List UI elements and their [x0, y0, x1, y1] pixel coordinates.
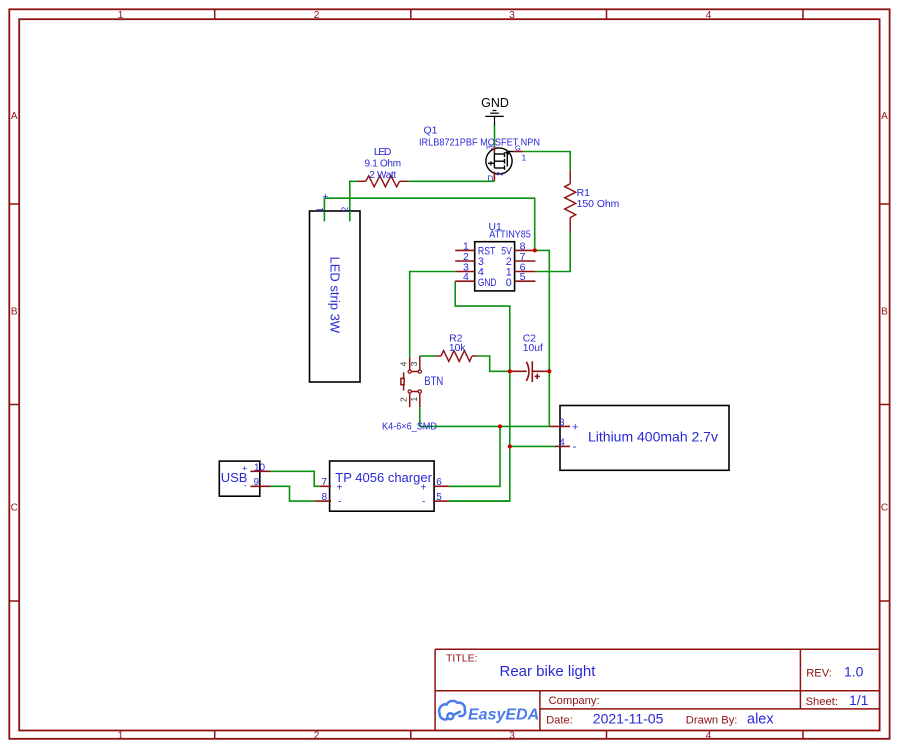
wire C2 right to battery plus rail — [548, 371, 550, 426]
wire BTN pin1 to plus rail — [419, 407, 421, 426]
wire U1 pin3 to BTN pin4 — [410, 272, 456, 358]
svg-text:2: 2 — [496, 171, 505, 176]
svg-text:150 Ohm: 150 Ohm — [577, 199, 620, 210]
svg-text:10k: 10k — [449, 343, 466, 354]
node junction C2 left — [508, 369, 512, 373]
USB pin 10 stub — [250, 470, 270, 472]
TP4056 charger module — [315, 461, 449, 511]
LED strip pin 1 — [323, 211, 325, 221]
LED strip 3W module — [310, 191, 361, 382]
wire TP4056 pin6 to plus rail — [449, 485, 500, 487]
U1 pin numbers — [463, 240, 526, 283]
svg-text:3: 3 — [509, 731, 515, 742]
svg-text:D: D — [488, 175, 494, 184]
wire BTN pin3 to R2 — [420, 355, 436, 357]
ground symbol — [485, 111, 504, 127]
pushbutton BTN — [399, 356, 422, 407]
svg-text:3: 3 — [559, 418, 565, 429]
wire Q1 source to LED resistor — [408, 180, 494, 182]
svg-text:LED: LED — [374, 147, 392, 158]
svg-text:6: 6 — [436, 477, 442, 488]
title block borders — [435, 649, 879, 730]
node junction battery plus — [498, 424, 502, 428]
wire U1 GND pin to C2 left — [455, 281, 510, 371]
svg-text:5: 5 — [436, 492, 442, 503]
svg-text:1/1: 1/1 — [849, 692, 869, 708]
wire battery minus down to TP4056 pin5 — [449, 446, 510, 501]
ruler ticks top — [215, 9, 803, 19]
svg-text:Company:: Company: — [549, 695, 600, 707]
transistor Q1 — [485, 144, 526, 184]
svg-text:2: 2 — [399, 397, 409, 402]
svg-text:alex: alex — [747, 712, 774, 728]
svg-text:4: 4 — [706, 731, 712, 742]
svg-text:K4-6×6_SMD: K4-6×6_SMD — [382, 422, 437, 433]
svg-text:4: 4 — [463, 271, 469, 283]
svg-text:R1: R1 — [577, 188, 591, 199]
battery Lithium 400mah — [550, 406, 730, 471]
svg-text:Q1: Q1 — [424, 126, 438, 137]
ruler numbers top — [118, 10, 712, 21]
svg-text:IRLB8721PBF MOSFET NPN: IRLB8721PBF MOSFET NPN — [419, 137, 540, 148]
node junction battery minus — [508, 444, 512, 448]
TP4056 pin 7 stub — [320, 485, 331, 487]
TP4056 pin 8 stub — [315, 500, 331, 502]
TP4056 pin 6 stub — [434, 485, 449, 487]
svg-text:3: 3 — [409, 361, 419, 366]
wire battery plus horizontal — [420, 425, 550, 427]
Q1 drain pin stub — [493, 146, 495, 153]
resistor R2 — [436, 351, 478, 362]
svg-text:A: A — [11, 111, 18, 122]
svg-text:4: 4 — [559, 438, 565, 449]
svg-text:+: + — [242, 464, 247, 474]
svg-text:Sheet:: Sheet: — [806, 696, 838, 708]
wire R2 right to C2 left — [478, 356, 510, 371]
svg-text:1: 1 — [409, 397, 419, 402]
resistor LED (9.1 Ohm) — [357, 176, 409, 187]
svg-text:1: 1 — [118, 731, 124, 742]
svg-text:B: B — [881, 307, 888, 318]
wire R1 bottom to U1 pin6 — [535, 232, 570, 272]
svg-text:3: 3 — [509, 10, 515, 21]
wire LED strip pin1 5V rail to U1 pin8 — [324, 198, 534, 250]
svg-text:+: + — [421, 483, 427, 494]
IC U1 ATTINY85 — [455, 240, 535, 291]
svg-text:Drawn By:: Drawn By: — [686, 715, 738, 727]
svg-text:2: 2 — [340, 207, 350, 212]
svg-text:Lithium 400mah 2.7v: Lithium 400mah 2.7v — [588, 429, 718, 445]
svg-text:C: C — [881, 503, 888, 514]
svg-text:-: - — [422, 497, 425, 508]
svg-text:10: 10 — [254, 462, 266, 473]
svg-text:2: 2 — [314, 10, 320, 21]
wire C2 left down to battery minus — [509, 371, 511, 446]
wire USB pin9 to TP4056 pin8 — [270, 486, 315, 501]
wire LED resistor to LED strip pin2 — [350, 181, 357, 221]
svg-text:-: - — [338, 497, 341, 508]
svg-text:BTN: BTN — [424, 376, 443, 388]
svg-text:-: - — [244, 481, 247, 491]
svg-text:7: 7 — [322, 477, 328, 488]
svg-text:B: B — [11, 307, 18, 318]
svg-text:2: 2 — [314, 731, 320, 742]
svg-text:Date:: Date: — [546, 715, 573, 727]
svg-text:LED strip 3W: LED strip 3W — [328, 257, 343, 334]
Q1 gate pin stub — [514, 151, 524, 153]
svg-text:ATTINY85: ATTINY85 — [489, 230, 531, 241]
svg-text:EasyEDA: EasyEDA — [468, 707, 539, 724]
ruler ticks right — [880, 204, 890, 601]
svg-text:Rear bike light: Rear bike light — [500, 663, 597, 680]
EasyEDA logo cloud — [439, 701, 465, 720]
wire U1 pin8 to C2 right — [535, 250, 550, 371]
svg-text:+: + — [572, 421, 578, 433]
LED resistor labels — [364, 147, 400, 181]
ruler ticks left — [9, 204, 19, 601]
node junction U1 pin8 — [533, 248, 537, 252]
TP4056 pin 5 stub — [434, 500, 449, 502]
svg-text:0: 0 — [506, 277, 512, 289]
capacitor C2 — [510, 361, 550, 382]
wire battery minus stub link — [510, 445, 556, 447]
svg-text:TP 4056 charger: TP 4056 charger — [335, 470, 432, 485]
svg-text:4: 4 — [706, 10, 712, 21]
wire plus rail down to TP4056 pin6 — [449, 426, 500, 486]
Q1 source pin stub — [493, 172, 495, 182]
wire GND to Q1 drain — [494, 126, 496, 147]
svg-text:1.0: 1.0 — [844, 664, 864, 680]
svg-text:-: - — [573, 441, 577, 453]
svg-text:9: 9 — [254, 477, 260, 488]
svg-text:10uf: 10uf — [523, 343, 543, 354]
svg-text:2 Watt: 2 Watt — [369, 170, 396, 181]
svg-text:TITLE:: TITLE: — [446, 653, 478, 665]
svg-text:5: 5 — [520, 271, 526, 283]
ruler ticks bottom — [215, 731, 803, 739]
USB connector — [219, 461, 270, 496]
svg-text:A: A — [881, 111, 888, 122]
svg-text:9.1 Ohm: 9.1 Ohm — [364, 159, 400, 170]
wire Q1 gate to R1 top — [523, 152, 570, 171]
svg-text:REV:: REV: — [806, 668, 832, 680]
U1 pin names — [478, 245, 513, 289]
node junction C2 right — [547, 369, 551, 373]
resistor R1 — [565, 170, 576, 231]
svg-text:4: 4 — [399, 361, 409, 366]
svg-text:C: C — [11, 503, 18, 514]
ruler numbers bottom — [118, 731, 712, 742]
svg-text:+: + — [322, 191, 328, 203]
svg-text:2021-11-05: 2021-11-05 — [593, 711, 664, 727]
svg-text:GND: GND — [478, 277, 497, 289]
ruler letters right — [881, 111, 888, 514]
svg-text:1: 1 — [522, 153, 527, 163]
wire TP4056 pin5 to minus rail — [449, 500, 510, 502]
ruler letters left — [11, 111, 18, 514]
LED strip pin 2 — [349, 211, 351, 221]
svg-text:1: 1 — [118, 10, 124, 21]
battery pin 3 stub — [550, 425, 571, 427]
svg-text:1: 1 — [315, 207, 325, 212]
battery pin 4 stub — [555, 445, 570, 447]
wire USB pin10 to TP4056 pin7 — [270, 471, 320, 486]
svg-text:GND: GND — [481, 96, 509, 110]
USB pin 9 stub — [250, 485, 270, 487]
svg-text:+: + — [337, 483, 343, 494]
svg-text:8: 8 — [322, 492, 328, 503]
